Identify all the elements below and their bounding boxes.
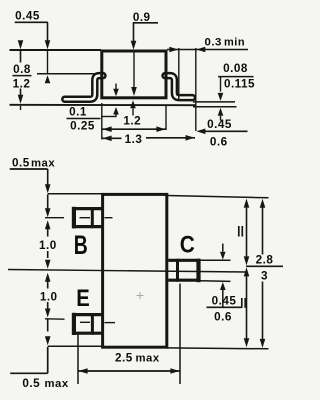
svg-text:0.45: 0.45 (212, 294, 237, 307)
svg-text:1.3: 1.3 (125, 133, 143, 146)
svg-text:B: B (74, 230, 88, 260)
svg-text:0.3: 0.3 (205, 36, 222, 48)
svg-text:max: max (45, 378, 69, 390)
svg-text:0.25: 0.25 (70, 119, 95, 132)
svg-text:0.8: 0.8 (13, 63, 31, 76)
svg-text:0.1: 0.1 (69, 105, 87, 118)
svg-text:0.6: 0.6 (210, 135, 228, 148)
svg-text:3: 3 (261, 269, 268, 282)
svg-text:0.5: 0.5 (12, 157, 30, 170)
svg-text:1.2: 1.2 (123, 115, 141, 128)
svg-text:0.5: 0.5 (22, 377, 40, 390)
svg-text:E: E (76, 285, 90, 312)
svg-text:2.5: 2.5 (115, 352, 133, 365)
svg-text:1.0: 1.0 (40, 290, 58, 303)
svg-text:min: min (224, 36, 245, 48)
svg-text:0.6: 0.6 (214, 311, 232, 324)
svg-text:0.08: 0.08 (223, 62, 248, 75)
svg-text:max: max (31, 158, 55, 170)
svg-text:max: max (136, 353, 160, 365)
svg-text:2.8: 2.8 (256, 253, 274, 266)
svg-text:0.45: 0.45 (207, 118, 232, 131)
svg-text:0.115: 0.115 (224, 77, 255, 90)
svg-text:C: C (180, 232, 195, 259)
svg-text:1.2: 1.2 (13, 78, 31, 91)
svg-text:0.45: 0.45 (15, 9, 40, 22)
svg-text:1.0: 1.0 (39, 239, 57, 252)
